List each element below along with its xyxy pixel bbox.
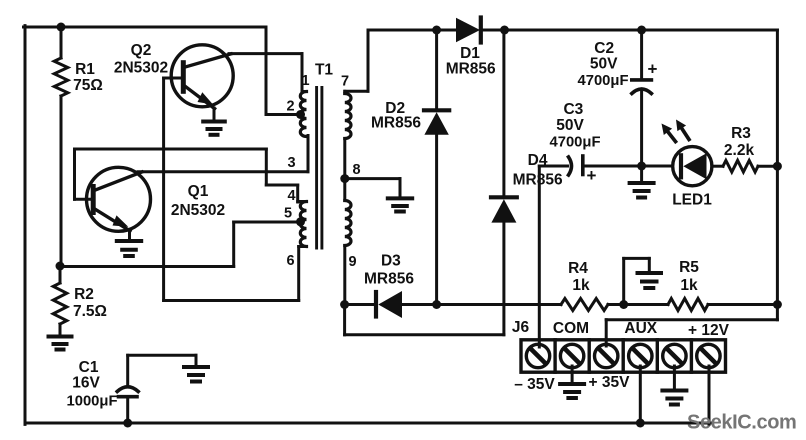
resistor R5 bbox=[624, 299, 778, 311]
svg-text:C1: C1 bbox=[79, 359, 99, 376]
svg-text:MR856: MR856 bbox=[513, 172, 563, 189]
resistor R1 bbox=[54, 27, 68, 266]
label Q2 bbox=[114, 42, 168, 77]
pin 3 label bbox=[287, 155, 295, 171]
label R1 bbox=[73, 61, 103, 94]
pin 1 label bbox=[301, 73, 309, 89]
node D2 anode junction bbox=[432, 300, 441, 309]
node R4 R5 junction bbox=[619, 300, 628, 309]
label LED1 bbox=[672, 192, 712, 209]
svg-text:75Ω: 75Ω bbox=[73, 77, 103, 94]
svg-text:MR856: MR856 bbox=[364, 271, 414, 288]
svg-text:D3: D3 bbox=[381, 253, 401, 270]
transformer T1 primary lower winding (pins 4-6) bbox=[298, 202, 307, 247]
label C3 bbox=[549, 101, 600, 151]
wire +12V terminal to bottom rail bbox=[708, 366, 711, 424]
svg-text:4700μF: 4700μF bbox=[577, 73, 628, 89]
ground R4-R5 junction bbox=[624, 258, 661, 304]
capacitor C1 bbox=[117, 355, 138, 423]
svg-text:7: 7 bbox=[341, 74, 349, 90]
wire Q1 collector to pin 3 bbox=[138, 136, 308, 172]
svg-text:2.2k: 2.2k bbox=[724, 142, 755, 159]
ground T1 pin 8 bbox=[388, 198, 412, 211]
LED LED1 bbox=[642, 147, 723, 186]
svg-text:T1: T1 bbox=[315, 62, 333, 79]
label C1 bbox=[66, 359, 117, 410]
diode D3 bbox=[345, 291, 437, 318]
label +12V bbox=[688, 322, 730, 339]
svg-text:7.5Ω: 7.5Ω bbox=[73, 303, 107, 320]
resistor R2 bbox=[53, 266, 67, 336]
label C3 plus bbox=[587, 166, 597, 185]
transistor Q2 bbox=[164, 45, 234, 122]
svg-text:50V: 50V bbox=[590, 56, 618, 73]
node AUX terminal bottom junction bbox=[636, 419, 645, 428]
transformer T1 secondary center (pin 8) bbox=[343, 139, 346, 201]
label R5 bbox=[679, 259, 699, 294]
wire pin 8 to ground bbox=[345, 179, 400, 198]
svg-text:LED1: LED1 bbox=[672, 192, 712, 209]
LED1 arrow 2 bbox=[676, 120, 689, 140]
svg-text:6: 6 bbox=[286, 253, 294, 269]
wire pin 5 to R2 junction bbox=[60, 222, 301, 267]
ground Q1 emitter bbox=[117, 241, 141, 256]
wire Q1 base to pin 4 bbox=[75, 149, 298, 202]
svg-text:2N5302: 2N5302 bbox=[114, 60, 168, 77]
svg-text:R4: R4 bbox=[568, 260, 588, 277]
transformer T1 secondary lower winding (pin 8-9) bbox=[345, 201, 351, 246]
node pin 8 bbox=[340, 174, 349, 183]
svg-text:AUX: AUX bbox=[624, 320, 657, 337]
svg-text:1k: 1k bbox=[572, 277, 590, 294]
label T1 bbox=[315, 62, 333, 79]
pin 2 label bbox=[286, 99, 294, 115]
svg-text:16V: 16V bbox=[72, 375, 100, 392]
node R3 right junction bbox=[773, 162, 782, 171]
svg-text:MR856: MR856 bbox=[446, 61, 496, 78]
wire pin 9 down bbox=[343, 246, 346, 305]
label R4 bbox=[568, 260, 590, 294]
wire left edge vertical bbox=[24, 26, 27, 425]
terminal screw 3 bbox=[595, 344, 618, 367]
wire D3 to R4 bbox=[437, 303, 561, 306]
svg-text:MR856: MR856 bbox=[371, 115, 421, 132]
node top-left junction bbox=[57, 23, 66, 32]
wire C1 top to ground bbox=[128, 355, 196, 366]
transformer T1 secondary upper winding (pin 7-8) bbox=[345, 91, 351, 138]
node pin 9 junction bbox=[340, 300, 349, 309]
svg-text:+: + bbox=[587, 166, 597, 185]
svg-text:J6: J6 bbox=[512, 319, 530, 336]
terminal screw 1 bbox=[526, 344, 549, 367]
pin 5 label bbox=[284, 206, 292, 222]
pin 8 label bbox=[352, 162, 360, 178]
svg-text:R3: R3 bbox=[731, 125, 751, 142]
node D1 cathode junction bbox=[500, 26, 509, 35]
svg-text:C2: C2 bbox=[594, 40, 614, 57]
node C2 top junction bbox=[637, 26, 646, 35]
wire top rail bbox=[24, 26, 267, 29]
ground below COM terminal bbox=[560, 384, 584, 398]
svg-text:– 35V: – 35V bbox=[514, 376, 555, 393]
svg-text:+ 35V: + 35V bbox=[589, 374, 631, 391]
diode D4 bbox=[491, 30, 517, 335]
svg-text:D1: D1 bbox=[460, 45, 480, 62]
svg-text:2N5302: 2N5302 bbox=[171, 202, 225, 219]
pin 4 label bbox=[287, 188, 295, 204]
label D3 bbox=[364, 253, 414, 288]
label +35V bbox=[589, 374, 631, 391]
svg-text:8: 8 bbox=[352, 162, 360, 178]
svg-text:2: 2 bbox=[286, 99, 294, 115]
label R3 bbox=[724, 125, 755, 159]
ground below R2 bbox=[49, 337, 72, 350]
wire Q2 base to pin 6 bbox=[164, 78, 299, 301]
node R5 right junction bbox=[773, 300, 782, 309]
terminal screw 6 bbox=[697, 344, 720, 367]
pin 9 label bbox=[348, 254, 356, 270]
capacitor C3 bbox=[539, 156, 641, 175]
svg-text:R2: R2 bbox=[74, 286, 94, 303]
svg-text:1000μF: 1000μF bbox=[66, 394, 117, 410]
transformer T1 core bbox=[317, 88, 322, 249]
node pin 2 bbox=[296, 110, 305, 119]
wire bottom rail bbox=[25, 422, 711, 425]
node R2 top junction bbox=[56, 262, 65, 271]
svg-text:3: 3 bbox=[287, 155, 295, 171]
pin 6 label bbox=[286, 253, 294, 269]
wire Q2 collector to pin 1 bbox=[229, 54, 302, 93]
wire right rail bbox=[776, 30, 779, 320]
wire COM terminal to ground bbox=[571, 366, 574, 384]
svg-text:+ 12V: + 12V bbox=[688, 322, 730, 339]
wire right rail to AUX terminal bbox=[606, 320, 777, 346]
wire AUX terminal to bottom rail bbox=[639, 366, 642, 423]
wire pin 7 to D1 bbox=[345, 30, 437, 91]
svg-text:Q1: Q1 bbox=[188, 183, 209, 200]
watermark SeekIC.com bbox=[687, 412, 796, 434]
label C2 plus bbox=[648, 60, 658, 79]
wire D1 to top right bbox=[505, 29, 778, 32]
svg-text:Q2: Q2 bbox=[131, 42, 152, 59]
label -35V bbox=[514, 376, 555, 393]
label COM bbox=[553, 320, 589, 337]
node C2 bottom junction bbox=[637, 162, 646, 171]
transistor Q1 bbox=[75, 167, 151, 241]
diode D2 bbox=[424, 30, 449, 305]
label D4 bbox=[513, 152, 563, 189]
node C1 bottom junction bbox=[123, 419, 132, 428]
svg-text:+: + bbox=[648, 60, 658, 79]
label D2 bbox=[371, 100, 421, 132]
resistor R3 bbox=[723, 160, 777, 172]
svg-text:9: 9 bbox=[348, 254, 356, 270]
node D1 anode junction bbox=[432, 26, 441, 35]
svg-text:4: 4 bbox=[287, 188, 295, 204]
svg-text:R1: R1 bbox=[75, 61, 95, 78]
LED1 arrow 1 bbox=[662, 124, 676, 142]
wire C3 to terminal -35V bbox=[538, 166, 541, 347]
svg-text:5: 5 bbox=[284, 206, 292, 222]
node pin 5 bbox=[296, 217, 305, 226]
ground below terminal 5 bbox=[662, 391, 686, 405]
label J6 bbox=[512, 319, 530, 336]
svg-text:SeekIC.com: SeekIC.com bbox=[687, 412, 796, 434]
ground Q2 emitter bbox=[203, 122, 225, 135]
svg-text:R5: R5 bbox=[679, 259, 699, 276]
capacitor C2 bbox=[632, 30, 652, 166]
svg-text:50V: 50V bbox=[556, 117, 584, 134]
terminal screw 5 bbox=[663, 344, 686, 367]
svg-text:4700μF: 4700μF bbox=[549, 135, 600, 151]
wire top rail to pin 2 bbox=[266, 27, 301, 115]
wire terminal 5 to ground bbox=[673, 366, 676, 390]
wire D4 anode loop to pin 9 bbox=[345, 305, 504, 335]
svg-text:1k: 1k bbox=[680, 277, 698, 294]
transformer T1 primary upper winding (pins 1-3) bbox=[300, 92, 308, 137]
svg-text:C3: C3 bbox=[563, 101, 583, 118]
connector J6 terminal block body bbox=[521, 340, 726, 372]
ground right of C1 bbox=[184, 367, 208, 382]
svg-text:COM: COM bbox=[553, 320, 589, 337]
terminal screw 2 bbox=[560, 344, 583, 367]
label C2 bbox=[577, 40, 628, 89]
label R2 bbox=[73, 286, 107, 320]
terminal screw 4 bbox=[629, 344, 652, 367]
ground below C2 bbox=[630, 166, 654, 198]
label AUX bbox=[624, 320, 657, 337]
svg-text:1: 1 bbox=[301, 73, 309, 89]
resistor R4 bbox=[561, 299, 624, 311]
label D1 bbox=[446, 45, 496, 78]
pin 7 label bbox=[341, 74, 349, 90]
diode D1 bbox=[437, 18, 505, 43]
label Q1 bbox=[171, 183, 225, 219]
